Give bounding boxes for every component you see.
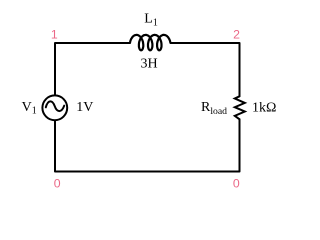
voltage source V1 circle: [42, 95, 67, 120]
svg-text:1V: 1V: [76, 100, 93, 115]
wire right-bottom segment: [55, 119, 240, 171]
svg-text:1kΩ: 1kΩ: [252, 100, 276, 115]
svg-text:2: 2: [233, 27, 240, 41]
svg-text:0: 0: [54, 177, 61, 191]
wire top-left segment (node 1 to inductor): [55, 43, 130, 94]
svg-text:3H: 3H: [140, 57, 157, 72]
inductor L1 coil: [130, 35, 170, 50]
svg-text:0: 0: [233, 177, 240, 191]
sine wave inside source: [46, 101, 64, 111]
svg-text:1: 1: [51, 28, 58, 42]
wire top-right segment (inductor to node 2): [171, 43, 240, 96]
svg-text:Rload: Rload: [201, 100, 227, 117]
resistor Rload zigzag: [235, 96, 245, 119]
svg-text:V1: V1: [22, 100, 37, 117]
svg-text:L1: L1: [144, 12, 158, 29]
